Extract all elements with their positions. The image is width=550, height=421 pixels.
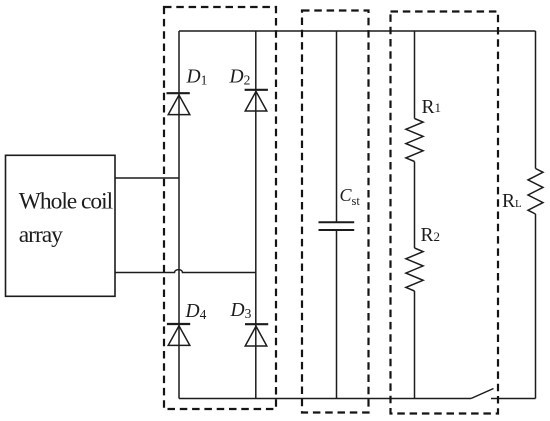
svg-text:D4: D4 — [185, 301, 207, 322]
wire: top bus — [179, 30, 536, 32]
resistor R2 — [406, 248, 423, 291]
svg-text:Whole coil: Whole coil — [19, 189, 114, 215]
svg-text:Cst: Cst — [340, 185, 361, 208]
diode D3 — [245, 324, 268, 346]
wire: coil bottom lead with hop over left bridge branch — [115, 270, 256, 273]
wire: capacitor branch (bottom) — [336, 230, 338, 399]
wire: load branch (bottom) — [535, 214, 537, 399]
dashed box: voltage divider stage — [391, 12, 499, 414]
svg-text:R1: R1 — [422, 97, 442, 118]
svg-text:R2: R2 — [421, 225, 441, 246]
wire: load branch (top) — [535, 31, 537, 169]
svg-text:D2: D2 — [229, 67, 251, 88]
wire: divider branch (bottom) — [414, 291, 416, 399]
wire: divider branch (middle) — [414, 162, 416, 249]
resistor R1 — [406, 119, 423, 162]
wire: bottom bus (left of switch) — [179, 398, 471, 400]
wire: divider branch (top) — [414, 31, 416, 119]
svg-text:D3: D3 — [230, 300, 252, 321]
label: Whole coil array — [19, 189, 114, 249]
wire: right bridge branch — [255, 31, 257, 399]
wire: left bridge branch — [178, 31, 180, 399]
svg-text:array: array — [19, 222, 63, 248]
wire: coil top lead — [115, 177, 179, 179]
wire: capacitor branch (top) — [336, 31, 338, 222]
resistor RL — [528, 169, 543, 215]
diode D2 — [245, 90, 268, 111]
wire: bottom bus (right of switch) — [491, 398, 536, 400]
dashed box: storage capacitor stage — [302, 11, 369, 413]
capacitor Cst — [319, 222, 355, 230]
diode D1 — [167, 93, 190, 114]
dashed box: rectifier stage — [164, 7, 276, 409]
block: Whole coil array — [6, 155, 116, 296]
svg-text:RL: RL — [502, 191, 522, 212]
svg-text:D1: D1 — [186, 67, 208, 88]
diode D4 — [167, 324, 190, 345]
switch S1 blade — [471, 389, 494, 399]
